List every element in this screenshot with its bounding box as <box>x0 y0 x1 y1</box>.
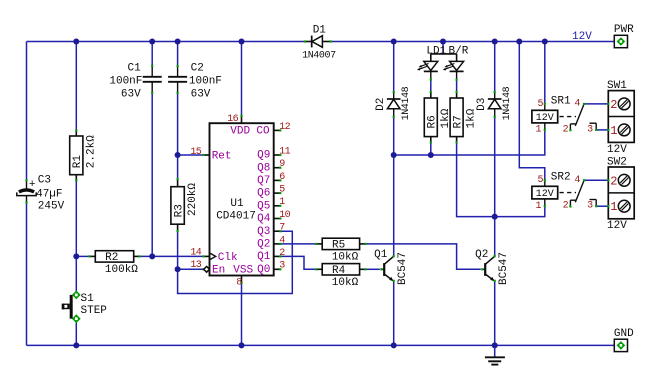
svg-text:Q9: Q9 <box>257 150 270 162</box>
wire R1 bottom to R2 node <box>75 180 77 256</box>
pushbutton S1 STEP <box>63 291 107 324</box>
svg-text:R4: R4 <box>332 265 346 277</box>
svg-text:100nF: 100nF <box>109 76 142 88</box>
diode D1 1N4007 <box>302 24 336 61</box>
wire Q2 collector <box>494 217 496 257</box>
svg-text:3: 3 <box>587 124 593 135</box>
wire R3 bottom to En node <box>177 231 179 269</box>
resistor R3 220k <box>171 178 199 232</box>
svg-text:CO: CO <box>256 126 270 138</box>
svg-text:1N4148: 1N4148 <box>502 86 513 120</box>
svg-text:U1: U1 <box>230 198 244 210</box>
svg-text:D1: D1 <box>313 24 327 36</box>
svg-text:3: 3 <box>587 201 593 212</box>
wire R2 right to Clk pin <box>141 255 204 257</box>
transistor Q1 BC547 <box>374 249 409 285</box>
svg-text:Q2: Q2 <box>475 249 488 261</box>
junction VDD/12V rail <box>239 39 245 45</box>
svg-text:1: 1 <box>279 197 285 208</box>
resistor R7 1k <box>450 91 478 143</box>
wire SR1 pin4 to SW1 pin2 <box>584 103 608 105</box>
U1 refdes and value <box>216 198 256 222</box>
svg-text:7: 7 <box>279 223 285 234</box>
svg-text:1: 1 <box>535 201 541 212</box>
op-amp U1 CD4017 counter IC <box>203 115 282 284</box>
wire 12V to SR1 coil pin5 <box>544 42 546 104</box>
junction C1/12V rail <box>149 39 155 45</box>
svg-text:En: En <box>212 265 225 277</box>
svg-text:Q3: Q3 <box>257 226 270 238</box>
svg-text:47µF: 47µF <box>36 188 62 200</box>
svg-text:Ret: Ret <box>212 150 232 162</box>
wire IC Q2 out pin4 to R5 <box>280 243 315 245</box>
junction R6/SR1 net <box>428 152 434 158</box>
wire C2 top lead <box>177 42 179 66</box>
terminal block SW1 <box>607 80 634 156</box>
svg-text:Q7: Q7 <box>257 175 270 187</box>
U1 pin numbers <box>190 114 290 288</box>
wire SR2 pin4 to SW2 pin2 <box>584 179 608 181</box>
svg-text:Q2: Q2 <box>257 239 270 251</box>
junction Q1 emitter/GND rail <box>391 342 397 348</box>
svg-text:VSS: VSS <box>233 265 253 277</box>
svg-text:100nF: 100nF <box>189 76 222 88</box>
junction R1/12V rail <box>73 39 79 45</box>
svg-text:R3: R3 <box>173 204 185 217</box>
svg-text:13: 13 <box>190 260 201 271</box>
svg-text:63V: 63V <box>191 88 211 100</box>
wire node down to S1 <box>75 256 77 295</box>
svg-text:R5: R5 <box>332 240 345 252</box>
wire SR1 pin3 to SW1 pin1 <box>596 129 608 131</box>
svg-text:12V: 12V <box>536 189 554 200</box>
svg-text:D2: D2 <box>375 98 387 111</box>
svg-text:63V: 63V <box>121 88 141 100</box>
svg-text:2: 2 <box>610 98 617 112</box>
wire Ret pin wire <box>178 154 204 156</box>
svg-text:Q4: Q4 <box>257 213 271 225</box>
svg-text:4: 4 <box>574 99 580 110</box>
svg-text:2: 2 <box>279 248 285 259</box>
svg-text:PWR: PWR <box>614 24 634 36</box>
svg-text:Q5: Q5 <box>257 200 270 212</box>
wire LED1 to R6 <box>430 80 432 92</box>
svg-text:SR2: SR2 <box>551 171 571 183</box>
wire C1 bottom to Clk net <box>151 93 153 257</box>
svg-text:4: 4 <box>279 235 285 246</box>
svg-text:R7: R7 <box>452 115 464 128</box>
svg-text:BC547: BC547 <box>498 252 510 285</box>
svg-text:1N4148: 1N4148 <box>401 86 412 120</box>
svg-text:4: 4 <box>574 175 580 186</box>
wire R6 bottom to SR1 drive net <box>430 142 432 155</box>
svg-text:1: 1 <box>610 200 617 214</box>
svg-text:220kΩ: 220kΩ <box>187 183 199 216</box>
LED LD1 B/R pair <box>417 45 469 80</box>
svg-text:Q1: Q1 <box>257 251 271 263</box>
wire Q2 emitter to GND rail <box>494 281 496 346</box>
svg-text:Q0: Q0 <box>257 264 270 276</box>
svg-text:2: 2 <box>610 174 617 188</box>
diode D3 1N4148 <box>476 86 513 120</box>
svg-text:5: 5 <box>537 99 543 110</box>
junction D2/Q1 collector/SR1 net <box>391 152 397 158</box>
junction SR2 feed/12V rail <box>516 39 522 45</box>
svg-text:B/R: B/R <box>449 45 469 57</box>
wire 12V rail right section <box>331 41 621 43</box>
svg-text:S1: S1 <box>81 293 95 305</box>
wire VSS pin 8 to GND rail <box>241 283 243 346</box>
junction VSS/GND rail <box>239 342 245 348</box>
wire Q1 emitter to GND rail <box>393 281 395 346</box>
junction C2/12V rail <box>175 39 181 45</box>
junction Ret/C2/R3 <box>175 152 181 158</box>
junction D3/12V rail <box>492 39 498 45</box>
svg-text:Q8: Q8 <box>257 162 270 174</box>
terminal block SW2 <box>607 156 634 232</box>
svg-text:LD1: LD1 <box>426 45 446 57</box>
svg-text:12: 12 <box>279 122 290 133</box>
relay SR1 12V <box>532 95 597 135</box>
wire D3 top lead to rail <box>494 42 496 93</box>
wire left rail upper (to C3) <box>26 42 28 181</box>
junction C1/Clk net <box>149 253 155 259</box>
svg-text:5: 5 <box>537 175 543 186</box>
svg-text:12V: 12V <box>607 144 627 156</box>
wire LED2 to R7 <box>456 80 458 92</box>
junction S1/GND rail <box>73 342 79 348</box>
svg-text:2: 2 <box>563 201 569 212</box>
svg-text:15: 15 <box>190 147 201 158</box>
svg-text:1N4007: 1N4007 <box>302 50 336 61</box>
svg-text:CD4017: CD4017 <box>216 210 256 222</box>
svg-text:11: 11 <box>279 146 290 157</box>
wire node to R2 left <box>76 255 89 257</box>
svg-text:R1: R1 <box>72 155 84 169</box>
svg-text:R2: R2 <box>105 252 118 264</box>
resistor R2 100k <box>88 251 140 276</box>
svg-text:Clk: Clk <box>218 252 238 264</box>
U1 pin names <box>212 126 271 277</box>
svg-text:5: 5 <box>279 185 285 196</box>
wire D3 bottom to SR2 drive net <box>494 117 496 217</box>
junction D2/12V rail <box>391 39 397 45</box>
terminal PWR <box>614 24 634 48</box>
resistor R6 1k <box>424 91 452 143</box>
junction LD1/12V rail <box>440 39 446 45</box>
svg-text:R6: R6 <box>427 115 439 128</box>
wire En node to En pin <box>178 268 204 270</box>
svg-text:C1: C1 <box>127 63 141 75</box>
svg-text:8: 8 <box>236 278 242 289</box>
svg-text:3: 3 <box>279 261 285 272</box>
svg-text:SW1: SW1 <box>607 80 627 92</box>
capacitor C2 100nF <box>168 63 222 101</box>
svg-text:C2: C2 <box>191 63 204 75</box>
svg-text:D3: D3 <box>476 98 488 111</box>
wire Q1 collector <box>393 155 395 256</box>
resistor R5 10k <box>315 238 366 263</box>
capacitor C3 47uF electrolytic <box>17 174 65 212</box>
svg-text:12V: 12V <box>536 113 554 124</box>
svg-text:2.2kΩ: 2.2kΩ <box>86 135 98 168</box>
svg-text:16: 16 <box>227 114 238 125</box>
wire Q3 feedback loop to En <box>178 231 293 293</box>
wire SR1 drive net to SR1 coil pin1 <box>394 130 545 155</box>
svg-text:9: 9 <box>279 159 285 170</box>
svg-text:STEP: STEP <box>81 305 108 317</box>
svg-text:C3: C3 <box>38 174 51 186</box>
svg-text:1: 1 <box>610 124 617 138</box>
wire C2 bottom through Ret node to R3 <box>177 93 179 179</box>
svg-text:VDD: VDD <box>230 126 250 138</box>
capacitor C1 100nF <box>109 63 161 101</box>
svg-text:6: 6 <box>279 172 285 183</box>
svg-text:245V: 245V <box>38 201 65 213</box>
svg-text:+: + <box>29 179 36 191</box>
wire left rail lower (C3 to GND rail) <box>26 203 28 346</box>
resistor R4 10k <box>315 264 366 289</box>
svg-text:10kΩ: 10kΩ <box>332 252 359 264</box>
svg-text:GND: GND <box>614 328 634 340</box>
wire IC Q1 out pin2 to R4 <box>280 256 315 269</box>
wire R4 to Q1 base <box>366 268 380 270</box>
svg-text:100kΩ: 100kΩ <box>105 264 138 276</box>
wire R7 bottom to SR2 drive net / SR2 coil pin1 <box>457 142 545 216</box>
svg-text:10: 10 <box>279 210 290 221</box>
junction SR1 feed/12V rail <box>542 39 548 45</box>
wire S1 to GND rail <box>75 319 77 346</box>
svg-text:12V: 12V <box>572 31 592 43</box>
svg-text:Q1: Q1 <box>374 249 388 261</box>
wire SR2 pin3 to SW2 pin1 <box>596 205 608 207</box>
wire C1 top lead <box>151 42 153 66</box>
relay SR2 12V <box>532 171 597 212</box>
diode D2 1N4148 <box>375 86 412 120</box>
svg-text:SR1: SR1 <box>551 95 571 107</box>
terminal GND <box>614 328 634 352</box>
wire D2 bottom to SR1 drive net <box>393 117 395 155</box>
transistor Q2 BC547 <box>475 249 510 285</box>
junction R1/R2/S1 <box>73 253 79 259</box>
wire VDD pin 16 to 12V rail <box>241 42 243 116</box>
resistor R1 2.2k <box>70 129 98 181</box>
svg-text:1: 1 <box>535 125 541 136</box>
ground <box>485 345 505 364</box>
svg-text:12V: 12V <box>607 220 627 232</box>
wire LD1 feed from rail <box>442 42 444 54</box>
svg-text:14: 14 <box>190 248 201 259</box>
svg-text:SW2: SW2 <box>607 156 627 168</box>
wire 12V to SR2 coil pin5 <box>519 42 545 181</box>
wire GND bottom rail <box>27 344 621 346</box>
svg-text:Q6: Q6 <box>257 188 270 200</box>
svg-text:BC547: BC547 <box>397 252 409 285</box>
svg-text:2: 2 <box>563 124 569 135</box>
wire R1 top lead <box>75 42 77 131</box>
svg-text:10kΩ: 10kΩ <box>332 277 359 289</box>
wire D2 top lead to rail <box>393 42 395 93</box>
junction D3/Q2 collector/SR2 net <box>492 214 498 220</box>
wire R5 to Q2 base <box>366 244 481 269</box>
junction R3/En/feedback <box>175 266 181 272</box>
junction Q2 emitter/ground <box>492 342 498 348</box>
wire 12V rail left section <box>27 41 305 43</box>
